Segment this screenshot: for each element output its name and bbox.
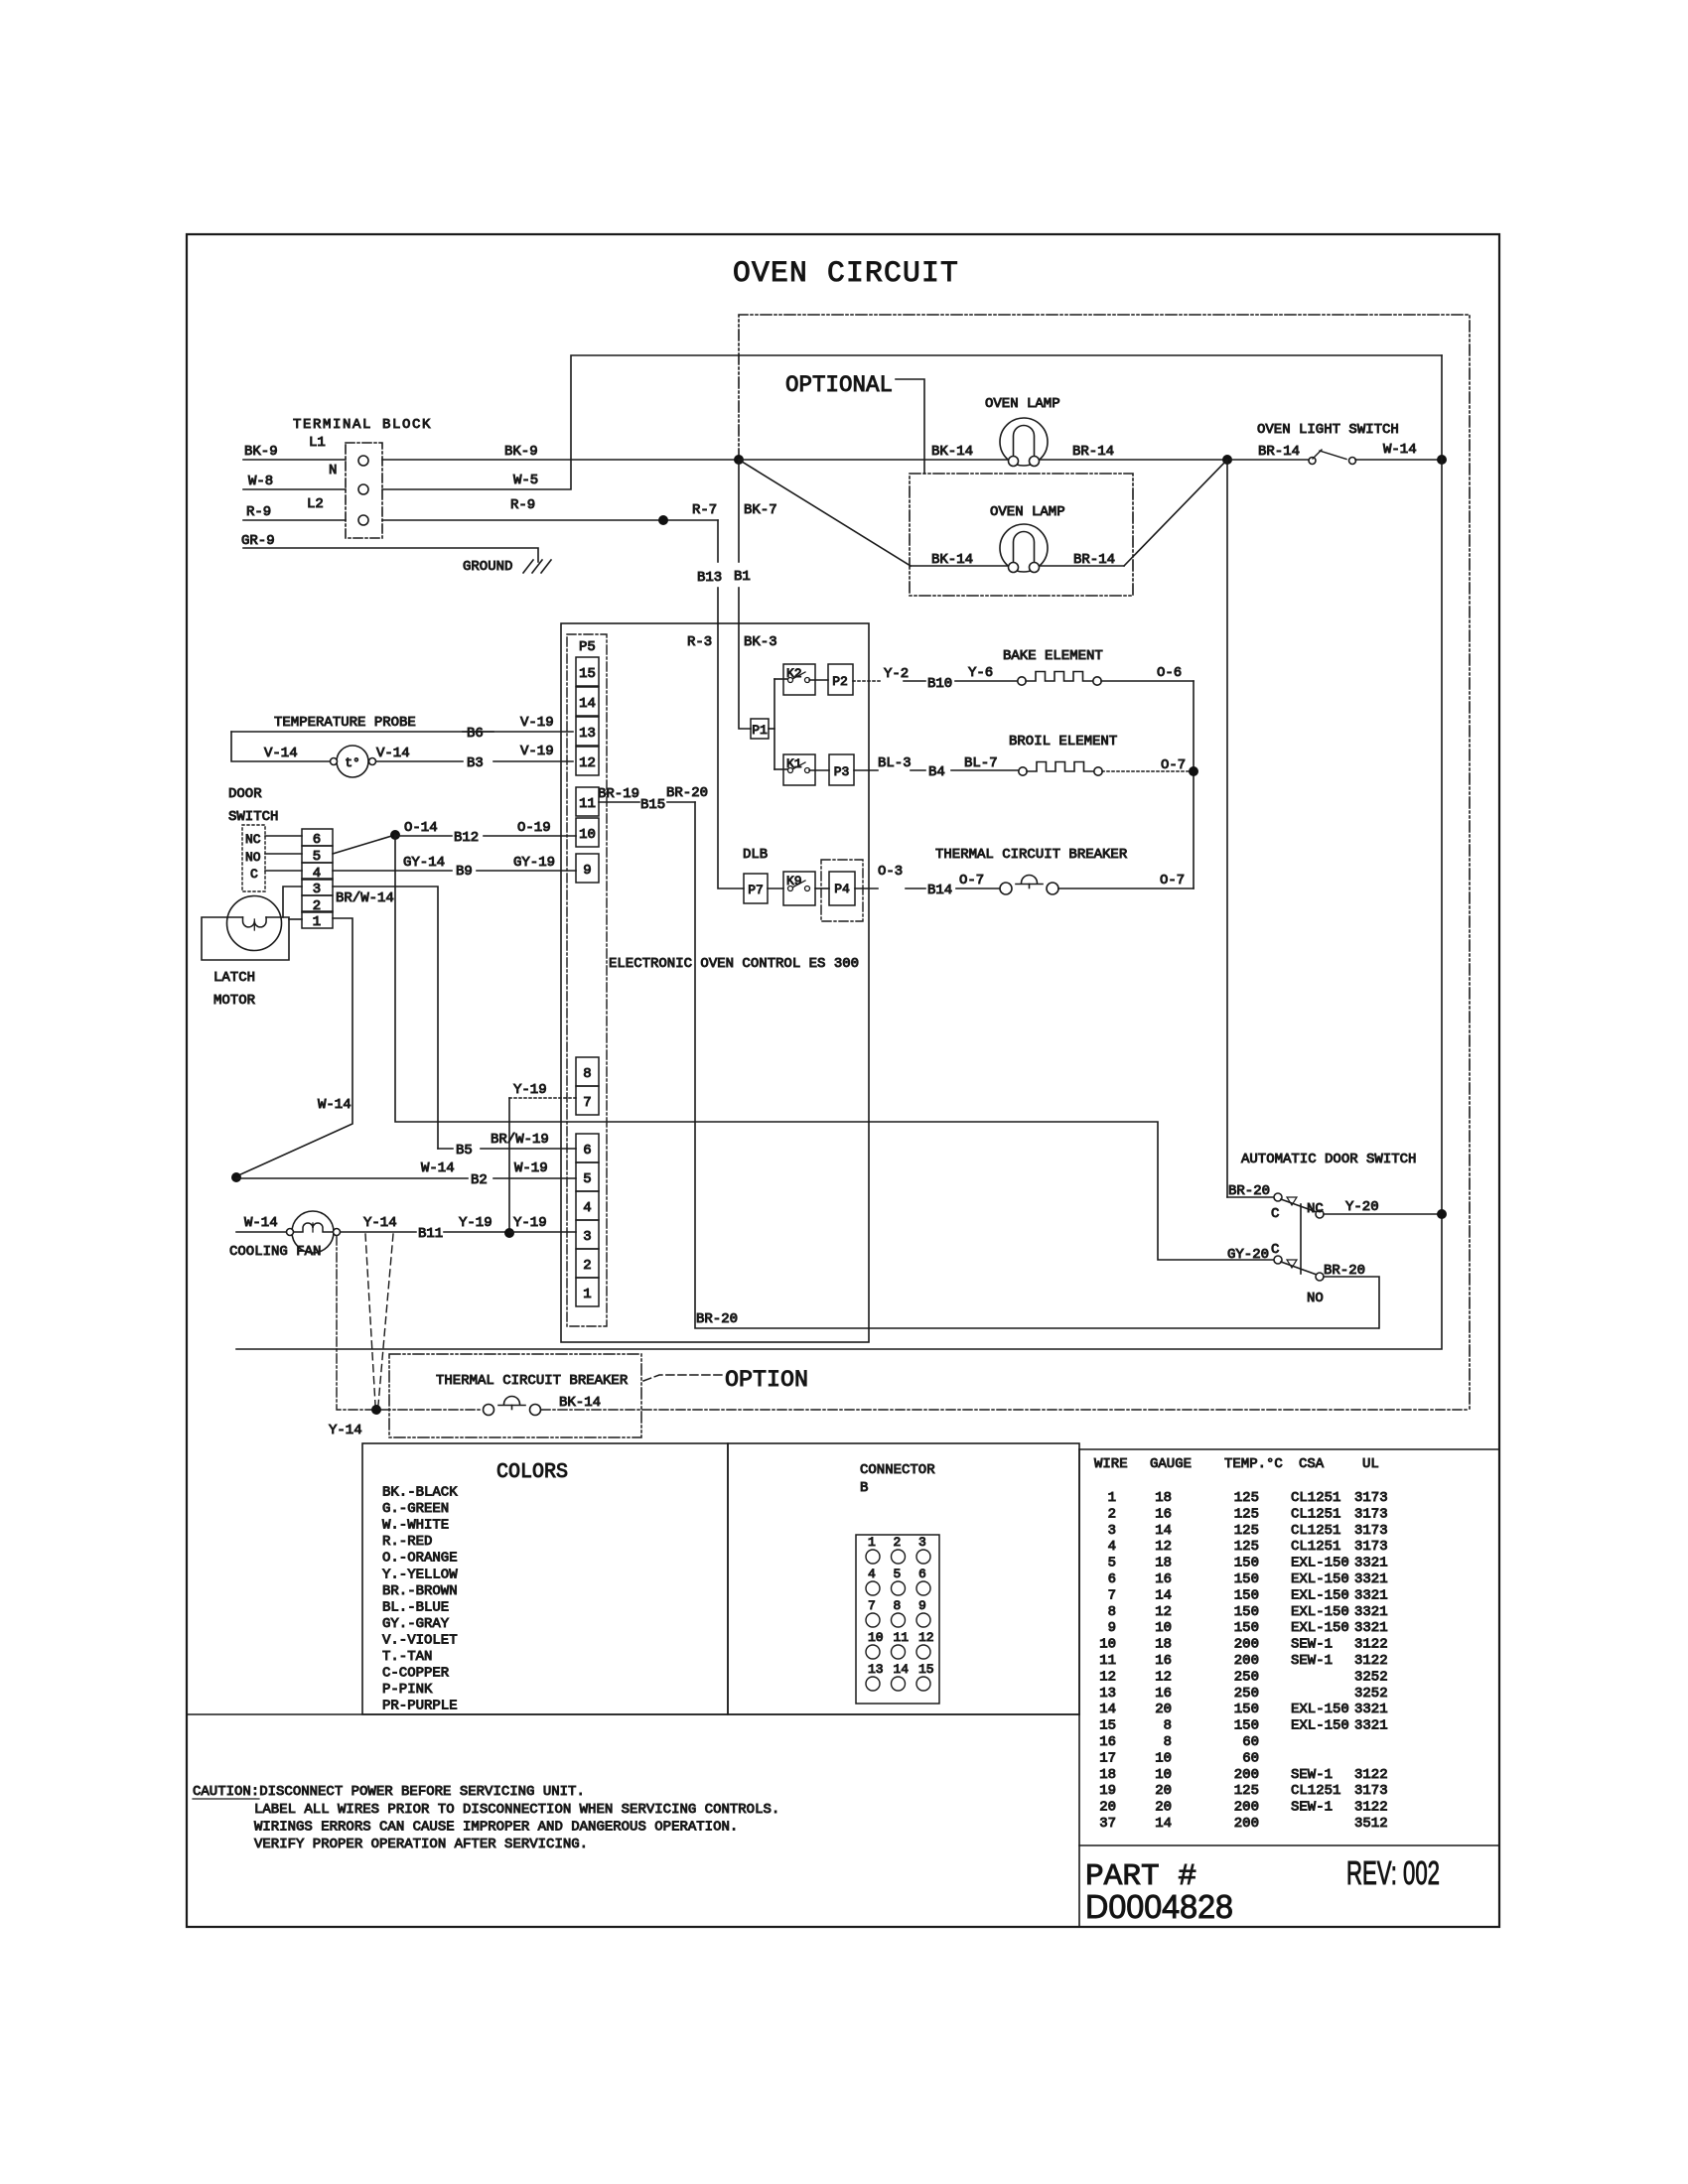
- wire BR-19 / B15 / BR-20 from pin 11: [599, 801, 639, 803]
- svg-text:10: 10: [1155, 1750, 1172, 1766]
- svg-text:EXL-150: EXL-150: [1291, 1604, 1349, 1620]
- page frame: [187, 234, 1499, 1927]
- svg-text:B6: B6: [467, 726, 484, 742]
- wire B13 / R-3 vertical: [717, 520, 719, 562]
- wire pin 3 to latch motor: [283, 887, 302, 917]
- svg-text:NO: NO: [245, 850, 261, 865]
- svg-text:G.-GREEN: G.-GREEN: [382, 1501, 449, 1517]
- svg-text:16: 16: [1099, 1734, 1116, 1750]
- svg-text:MOTOR: MOTOR: [213, 993, 256, 1009]
- wire BR-20 NO return: [1324, 1277, 1379, 1328]
- svg-text:125: 125: [1234, 1539, 1259, 1555]
- svg-text:150: 150: [1234, 1571, 1259, 1587]
- svg-text:ELECTRONIC OVEN CONTROL ES 300: ELECTRONIC OVEN CONTROL ES 300: [609, 956, 859, 972]
- svg-text:BK.-BLACK: BK.-BLACK: [382, 1485, 458, 1501]
- svg-text:W-14: W-14: [421, 1160, 455, 1176]
- svg-text:3321: 3321: [1354, 1620, 1388, 1636]
- svg-text:W-14: W-14: [244, 1215, 278, 1231]
- switch tie bar: [1300, 1204, 1302, 1274]
- pin P5-11: [576, 787, 599, 816]
- svg-text:5: 5: [583, 1171, 591, 1187]
- door switch connector pins: [302, 829, 333, 846]
- svg-text:OVEN LIGHT SWITCH: OVEN LIGHT SWITCH: [1257, 422, 1399, 438]
- wire BK-14 diagonal to lamp 2: [739, 460, 911, 566]
- svg-text:B13: B13: [697, 570, 722, 586]
- svg-text:O.-ORANGE: O.-ORANGE: [382, 1551, 458, 1567]
- svg-text:R-9: R-9: [246, 504, 271, 520]
- svg-text:18: 18: [1155, 1556, 1172, 1571]
- relay K2: [774, 678, 788, 680]
- svg-text:LABEL ALL WIRES PRIOR TO DISCO: LABEL ALL WIRES PRIOR TO DISCONNECTION W…: [254, 1802, 779, 1818]
- svg-text:3321: 3321: [1354, 1571, 1388, 1587]
- svg-text:12: 12: [1099, 1669, 1116, 1685]
- svg-text:7: 7: [583, 1095, 591, 1111]
- svg-text:12: 12: [579, 755, 596, 771]
- svg-text:150: 150: [1234, 1587, 1259, 1603]
- thermal circuit breaker (option): [381, 1409, 483, 1411]
- svg-text:Y-19: Y-19: [513, 1082, 547, 1098]
- svg-text:B14: B14: [927, 883, 952, 898]
- wire C to pin 4: [265, 870, 302, 872]
- svg-text:3252: 3252: [1354, 1669, 1388, 1685]
- svg-text:60: 60: [1242, 1734, 1259, 1750]
- svg-text:B10: B10: [927, 676, 952, 692]
- svg-text:125: 125: [1234, 1523, 1259, 1539]
- svg-text:60: 60: [1242, 1750, 1259, 1766]
- svg-text:12: 12: [1155, 1669, 1172, 1685]
- node W-14 junction: [231, 1172, 241, 1182]
- svg-text:3122: 3122: [1354, 1637, 1388, 1653]
- node R-7 junction: [658, 515, 668, 525]
- svg-text:W-14: W-14: [318, 1097, 352, 1113]
- svg-text:9: 9: [1108, 1620, 1116, 1636]
- svg-text:EXL-150: EXL-150: [1291, 1587, 1349, 1603]
- svg-text:150: 150: [1234, 1604, 1259, 1620]
- svg-text:3321: 3321: [1354, 1556, 1388, 1571]
- svg-text:10: 10: [579, 827, 596, 843]
- node O-14 junction: [390, 830, 400, 840]
- svg-text:125: 125: [1234, 1506, 1259, 1522]
- svg-text:BL-7: BL-7: [964, 755, 998, 771]
- svg-text:3321: 3321: [1354, 1587, 1388, 1603]
- pin P4: [821, 860, 863, 921]
- svg-text:6: 6: [583, 1143, 591, 1159]
- svg-text:OPTIONAL: OPTIONAL: [785, 372, 893, 398]
- svg-text:10: 10: [868, 1630, 884, 1645]
- svg-text:V.-VIOLET: V.-VIOLET: [382, 1632, 458, 1648]
- pin P5-3: [576, 1220, 599, 1249]
- svg-text:13: 13: [579, 726, 596, 742]
- svg-text:BK-7: BK-7: [744, 502, 777, 518]
- svg-text:BR-14: BR-14: [1073, 552, 1115, 568]
- svg-text:1: 1: [583, 1287, 591, 1302]
- svg-text:6: 6: [1108, 1571, 1116, 1587]
- svg-text:R-7: R-7: [692, 502, 717, 518]
- svg-text:B3: B3: [467, 755, 484, 771]
- caution box: [187, 1713, 1079, 1715]
- svg-text:16: 16: [1155, 1653, 1172, 1669]
- svg-text:10: 10: [1099, 1637, 1116, 1653]
- svg-text:14: 14: [1099, 1702, 1116, 1717]
- svg-text:BK-9: BK-9: [244, 444, 278, 460]
- wire Y-20 to neutral: [1324, 1213, 1442, 1215]
- svg-text:GROUND: GROUND: [463, 559, 512, 575]
- svg-text:P2: P2: [832, 674, 848, 689]
- pin P5-2: [576, 1249, 599, 1278]
- svg-text:14: 14: [579, 696, 596, 712]
- pin P5-5: [576, 1162, 599, 1191]
- wire pin 5 to O-14 node: [333, 835, 395, 854]
- svg-text:GY-14: GY-14: [403, 855, 445, 871]
- electronic oven control box: [561, 623, 869, 1342]
- svg-text:2: 2: [894, 1535, 902, 1550]
- svg-text:200: 200: [1234, 1637, 1259, 1653]
- pin P5-1: [576, 1278, 599, 1306]
- pin P5-14: [576, 687, 599, 716]
- svg-text:BAKE ELEMENT: BAKE ELEMENT: [1003, 648, 1103, 664]
- wire BR-14 lamp 1 to node: [1040, 459, 1224, 461]
- svg-text:18: 18: [1155, 1637, 1172, 1653]
- svg-text:BR-20: BR-20: [666, 785, 708, 801]
- svg-text:15: 15: [579, 666, 596, 682]
- switch blade NC: [1281, 1199, 1317, 1212]
- svg-text:P7: P7: [748, 883, 764, 897]
- svg-text:B4: B4: [928, 764, 945, 780]
- svg-text:18: 18: [1099, 1767, 1116, 1783]
- svg-text:BK-9: BK-9: [504, 444, 538, 460]
- svg-text:SEW-1: SEW-1: [1291, 1800, 1333, 1816]
- svg-text:7: 7: [868, 1598, 876, 1613]
- svg-text:20: 20: [1155, 1783, 1172, 1799]
- svg-text:BR.-BROWN: BR.-BROWN: [382, 1583, 458, 1599]
- pin P5-9: [576, 854, 599, 883]
- svg-text:O-19: O-19: [517, 820, 551, 836]
- svg-text:GY-20: GY-20: [1227, 1247, 1269, 1263]
- svg-text:7: 7: [1108, 1587, 1116, 1603]
- svg-text:5: 5: [1108, 1556, 1116, 1571]
- svg-text:R.-RED: R.-RED: [382, 1534, 432, 1550]
- svg-text:SEW-1: SEW-1: [1291, 1653, 1333, 1669]
- svg-text:14: 14: [1155, 1523, 1172, 1539]
- svg-text:EXL-150: EXL-150: [1291, 1718, 1349, 1734]
- svg-text:CL1251: CL1251: [1291, 1783, 1340, 1799]
- svg-text:P4: P4: [834, 882, 850, 896]
- wire BR-20 down and across to door switch NO: [695, 802, 1378, 1328]
- svg-text:4: 4: [583, 1200, 591, 1216]
- svg-text:17: 17: [1099, 1750, 1116, 1766]
- svg-text:11: 11: [1099, 1653, 1116, 1669]
- svg-text:200: 200: [1234, 1767, 1259, 1783]
- svg-text:SWITCH: SWITCH: [228, 809, 278, 825]
- svg-text:D0004828: D0004828: [1085, 1888, 1233, 1925]
- svg-text:14: 14: [894, 1662, 910, 1677]
- svg-text:CL1251: CL1251: [1291, 1523, 1340, 1539]
- colors legend box: [362, 1443, 728, 1714]
- svg-text:8: 8: [583, 1066, 591, 1082]
- svg-text:125: 125: [1234, 1783, 1259, 1799]
- svg-text:20: 20: [1155, 1800, 1172, 1816]
- svg-text:BL.-BLUE: BL.-BLUE: [382, 1599, 449, 1615]
- svg-text:R-9: R-9: [510, 497, 535, 513]
- svg-text:3: 3: [583, 1229, 591, 1245]
- svg-text:NC: NC: [1307, 1201, 1324, 1217]
- svg-text:10: 10: [1155, 1620, 1172, 1636]
- svg-text:3122: 3122: [1354, 1767, 1388, 1783]
- svg-text:150: 150: [1234, 1556, 1259, 1571]
- svg-text:O-14: O-14: [404, 820, 438, 836]
- svg-text:1: 1: [868, 1535, 876, 1550]
- wire BR-20 down to automatic door switch: [1226, 460, 1228, 1197]
- pin P3: [809, 769, 829, 771]
- svg-text:3321: 3321: [1354, 1702, 1388, 1717]
- svg-text:GR-9: GR-9: [241, 533, 275, 549]
- svg-text:N: N: [329, 463, 337, 478]
- connector P5 outline: [567, 634, 607, 1326]
- wire B5 / BR-W-19 to pin 6: [438, 1148, 453, 1150]
- svg-text:14: 14: [1155, 1816, 1172, 1832]
- wire W neutral vertical and return: [236, 355, 1442, 1349]
- svg-text:GY.-GRAY: GY.-GRAY: [382, 1616, 450, 1632]
- svg-text:3173: 3173: [1354, 1490, 1388, 1506]
- pin P2: [809, 679, 828, 681]
- wire B1 / BK-3 vertical: [738, 460, 740, 562]
- svg-text:VERIFY PROPER OPERATION AFTER: VERIFY PROPER OPERATION AFTER SERVICING.: [254, 1837, 588, 1852]
- svg-text:L2: L2: [307, 496, 324, 512]
- svg-text:9: 9: [918, 1598, 926, 1613]
- wire BR-14 lamp 2 diagonal to node: [1040, 565, 1124, 567]
- svg-text:10: 10: [1155, 1767, 1172, 1783]
- optional lamp 2 dash-dot box: [910, 474, 1133, 596]
- svg-text:O-7: O-7: [959, 873, 984, 888]
- svg-text:1: 1: [313, 914, 321, 930]
- option thermal circuit breaker box: [389, 1354, 641, 1437]
- svg-text:OVEN LAMP: OVEN LAMP: [985, 396, 1060, 412]
- svg-text:19: 19: [1099, 1783, 1116, 1799]
- wire pin 1 to motor: [289, 918, 302, 920]
- svg-text:BROIL ELEMENT: BROIL ELEMENT: [1009, 734, 1117, 750]
- svg-text:BR-14: BR-14: [1258, 444, 1300, 460]
- svg-text:CONNECTOR: CONNECTOR: [860, 1462, 935, 1478]
- svg-text:37: 37: [1099, 1816, 1116, 1832]
- svg-text:11: 11: [579, 796, 596, 812]
- svg-text:3321: 3321: [1354, 1604, 1388, 1620]
- svg-text:BK-14: BK-14: [931, 444, 973, 460]
- svg-text:B12: B12: [454, 830, 479, 846]
- svg-text:CL1251: CL1251: [1291, 1506, 1340, 1522]
- svg-text:TEMP.°C: TEMP.°C: [1224, 1456, 1283, 1472]
- pin P5-4: [576, 1191, 599, 1220]
- svg-text:WIRINGS ERRORS CAN CAUSE IMPRO: WIRINGS ERRORS CAN CAUSE IMPROPER AND DA…: [254, 1820, 738, 1836]
- svg-text:250: 250: [1234, 1686, 1259, 1702]
- svg-text:18: 18: [1155, 1490, 1172, 1506]
- relay K1: [774, 768, 788, 770]
- svg-text:CSA: CSA: [1299, 1456, 1325, 1472]
- svg-text:V-14: V-14: [264, 746, 298, 761]
- svg-text:12: 12: [918, 1630, 934, 1645]
- svg-text:UL: UL: [1362, 1456, 1379, 1472]
- svg-text:LATCH: LATCH: [213, 970, 255, 986]
- svg-text:SEW-1: SEW-1: [1291, 1637, 1333, 1653]
- svg-text:14: 14: [1155, 1587, 1172, 1603]
- svg-text:150: 150: [1234, 1718, 1259, 1734]
- svg-text:15: 15: [918, 1662, 934, 1677]
- svg-text:3122: 3122: [1354, 1800, 1388, 1816]
- svg-text:3512: 3512: [1354, 1816, 1388, 1832]
- pin P1: [751, 719, 769, 739]
- svg-text:O-3: O-3: [878, 864, 903, 880]
- wire gauge table box: [1079, 1448, 1499, 1450]
- optional wiring to thermal breaker: [365, 1234, 375, 1405]
- part number box: [1079, 1844, 1499, 1846]
- node Y-19 junction: [504, 1228, 514, 1238]
- svg-text:EXL-150: EXL-150: [1291, 1702, 1349, 1717]
- pin P5-12: [576, 747, 599, 775]
- svg-text:DOOR: DOOR: [228, 786, 262, 802]
- svg-text:4: 4: [868, 1567, 876, 1581]
- svg-text:BR-20: BR-20: [696, 1311, 738, 1327]
- svg-text:SEW-1: SEW-1: [1291, 1767, 1333, 1783]
- svg-text:T.-TAN: T.-TAN: [382, 1649, 432, 1665]
- svg-text:16: 16: [1155, 1506, 1172, 1522]
- svg-text:125: 125: [1234, 1490, 1259, 1506]
- svg-text:EXL-150: EXL-150: [1291, 1556, 1349, 1571]
- svg-text:DLB: DLB: [743, 847, 768, 863]
- svg-text:12: 12: [1155, 1539, 1172, 1555]
- wire B12 / O-19 to pin 10: [395, 835, 452, 837]
- svg-text:Y-19: Y-19: [513, 1215, 547, 1231]
- svg-text:3: 3: [1108, 1523, 1116, 1539]
- svg-text:8: 8: [894, 1598, 902, 1613]
- svg-text:THERMAL CIRCUIT BREAKER: THERMAL CIRCUIT BREAKER: [436, 1373, 629, 1389]
- svg-text:THERMAL CIRCUIT BREAKER: THERMAL CIRCUIT BREAKER: [935, 847, 1128, 863]
- svg-text:3173: 3173: [1354, 1506, 1388, 1522]
- svg-text:13: 13: [868, 1662, 884, 1677]
- svg-text:11: 11: [894, 1630, 910, 1645]
- svg-text:6: 6: [918, 1567, 926, 1581]
- wire O-7 broil output: [1102, 770, 1190, 772]
- svg-text:COOLING FAN: COOLING FAN: [229, 1244, 321, 1260]
- wire W-14 switch to neutral: [1355, 459, 1442, 461]
- svg-text:8: 8: [1108, 1604, 1116, 1620]
- svg-text:EXL-150: EXL-150: [1291, 1571, 1349, 1587]
- svg-text:Y-2: Y-2: [884, 666, 909, 682]
- svg-text:W-14: W-14: [1383, 442, 1417, 458]
- svg-text:V-19: V-19: [520, 744, 554, 759]
- svg-text:C: C: [1271, 1206, 1279, 1222]
- svg-text:3: 3: [918, 1535, 926, 1550]
- svg-text:3173: 3173: [1354, 1539, 1388, 1555]
- svg-text:WIRE: WIRE: [1094, 1456, 1128, 1472]
- svg-text:150: 150: [1234, 1702, 1259, 1717]
- svg-text:8: 8: [1164, 1734, 1172, 1750]
- wire Y-19 from pin 7: [509, 1097, 576, 1099]
- svg-text:BR-14: BR-14: [1072, 444, 1114, 460]
- svg-text:W-5: W-5: [513, 473, 538, 488]
- svg-text:W.-WHITE: W.-WHITE: [382, 1518, 449, 1534]
- svg-text:BK-14: BK-14: [559, 1395, 601, 1411]
- svg-text:t°: t°: [345, 755, 360, 770]
- svg-text:200: 200: [1234, 1800, 1259, 1816]
- svg-text:3252: 3252: [1354, 1686, 1388, 1702]
- svg-text:BR/W-19: BR/W-19: [491, 1132, 549, 1148]
- node neutral top junction: [1437, 455, 1447, 465]
- svg-text:P3: P3: [834, 764, 850, 779]
- svg-text:Y-14: Y-14: [329, 1423, 362, 1438]
- svg-text:200: 200: [1234, 1816, 1259, 1832]
- svg-text:R-3: R-3: [687, 634, 712, 650]
- svg-text:20: 20: [1155, 1702, 1172, 1717]
- svg-text:200: 200: [1234, 1653, 1259, 1669]
- svg-text:BR-19: BR-19: [598, 786, 639, 802]
- pin P5-7: [576, 1086, 599, 1115]
- svg-text:4: 4: [1108, 1539, 1116, 1555]
- svg-text:O-6: O-6: [1157, 665, 1182, 681]
- svg-text:3122: 3122: [1354, 1653, 1388, 1669]
- wire O-6 bake output: [1101, 680, 1194, 682]
- svg-text:150: 150: [1234, 1620, 1259, 1636]
- node Y-14 junction: [371, 1405, 381, 1415]
- wire NO to pin 5: [265, 853, 302, 855]
- svg-text:B2: B2: [471, 1172, 488, 1188]
- svg-text:16: 16: [1155, 1571, 1172, 1587]
- svg-text:16: 16: [1155, 1686, 1172, 1702]
- svg-text:CAUTION:DISCONNECT POWER BEFOR: CAUTION:DISCONNECT POWER BEFORE SERVICIN…: [193, 1784, 585, 1800]
- svg-text:C-COPPER: C-COPPER: [382, 1666, 450, 1682]
- svg-text:P1: P1: [752, 723, 768, 738]
- svg-text:NC: NC: [245, 832, 261, 847]
- svg-text:REV: 002: REV: 002: [1346, 1854, 1440, 1891]
- svg-text:W-19: W-19: [514, 1160, 548, 1176]
- svg-text:8: 8: [1164, 1718, 1172, 1734]
- switch blade NO: [1281, 1262, 1317, 1275]
- svg-text:TEMPERATURE PROBE: TEMPERATURE PROBE: [274, 715, 416, 731]
- optional enclosure dash-dot box: [739, 315, 1470, 1410]
- svg-text:PR-PURPLE: PR-PURPLE: [382, 1699, 458, 1714]
- wire BR/W-14 from pin 3: [333, 887, 438, 1149]
- svg-text:Y.-YELLOW: Y.-YELLOW: [382, 1567, 458, 1582]
- svg-text:NO: NO: [1307, 1291, 1324, 1306]
- svg-text:3321: 3321: [1354, 1718, 1388, 1734]
- svg-text:P5: P5: [579, 639, 596, 655]
- svg-text:COLORS: COLORS: [496, 1461, 568, 1484]
- svg-text:2: 2: [1108, 1506, 1116, 1522]
- svg-text:B9: B9: [456, 864, 473, 880]
- svg-text:O-7: O-7: [1160, 873, 1185, 888]
- svg-text:AUTOMATIC DOOR SWITCH: AUTOMATIC DOOR SWITCH: [1241, 1152, 1416, 1167]
- svg-text:B: B: [860, 1480, 868, 1496]
- svg-text:13: 13: [1099, 1686, 1116, 1702]
- svg-text:20: 20: [1099, 1800, 1116, 1816]
- connector B box: [728, 1443, 1079, 1714]
- wire W-14 / B2 / W-19 to pin 5: [236, 1177, 468, 1179]
- svg-text:GAUGE: GAUGE: [1150, 1456, 1192, 1472]
- label OPTION with pointer: [643, 1375, 722, 1381]
- wire NC to pin 6: [265, 835, 302, 837]
- svg-text:Y-14: Y-14: [363, 1215, 397, 1231]
- svg-text:1: 1: [1108, 1490, 1116, 1506]
- svg-text:Y-20: Y-20: [1345, 1199, 1379, 1215]
- svg-text:3173: 3173: [1354, 1523, 1388, 1539]
- svg-text:W-8: W-8: [248, 474, 273, 489]
- svg-text:L1: L1: [309, 435, 326, 451]
- svg-text:15: 15: [1099, 1718, 1116, 1734]
- wire Y-19 to pin 3: [509, 1231, 576, 1233]
- svg-text:V-14: V-14: [376, 746, 410, 761]
- svg-text:12: 12: [1155, 1604, 1172, 1620]
- wire B3 / V-19 to pin 12: [376, 760, 463, 762]
- wire W-14 pin1 to neutral node: [236, 918, 352, 1176]
- svg-text:3173: 3173: [1354, 1783, 1388, 1799]
